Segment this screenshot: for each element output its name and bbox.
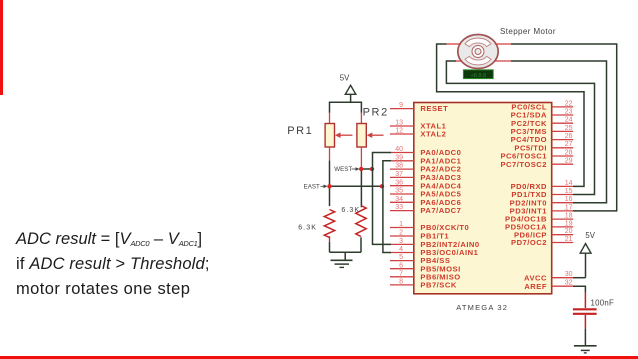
pin 40 PA0/ADC0 (left) [390,146,461,157]
motor M1: stepper motor body [458,35,498,69]
svg-text:PA7/ADC7: PA7/ADC7 [420,206,461,215]
pin 38 PA2/ADC2 (left) [390,163,461,174]
wire AREF pin32 to capacitor [573,286,585,308]
svg-text:19: 19 [565,220,573,227]
resistor PR1 (photoresistor) [325,124,352,148]
motor label [500,27,556,36]
pin 13 XTAL1 (left) [390,120,447,131]
svg-text:32: 32 [565,280,573,287]
svg-text:9: 9 [399,102,403,109]
pin 39 PA1/ADC1 (left) [390,154,462,165]
pin 23 PC1/SDA (right) [511,108,574,119]
svg-text:XTAL2: XTAL2 [420,130,446,139]
svg-text:+8.8.8: +8.8.8 [470,73,486,79]
svg-text:Stepper Motor: Stepper Motor [500,27,556,36]
svg-text:26: 26 [565,133,573,140]
svg-text:PD7/OC2: PD7/OC2 [511,238,547,247]
svg-text:PR1: PR1 [287,125,313,137]
wire motor coil B- to PD2 pin16 [511,61,607,203]
capacitor C1 100nF [573,309,597,328]
svg-text:PB7/SCK: PB7/SCK [420,281,456,290]
motor lead stubs (red) [447,44,512,61]
resistor R1 6.3K (east) [324,210,334,253]
svg-text:16: 16 [565,196,573,203]
svg-text:6: 6 [399,262,403,269]
pin 34 PA6/ADC6 (left) [390,196,461,207]
motor speed display LCD [463,70,493,79]
pin 19 PD5/OC1A (right) [505,220,573,231]
svg-text:6.3K: 6.3K [298,225,317,232]
svg-text:8: 8 [399,279,403,286]
pin 24 PC2/TCK (right) [511,117,573,128]
svg-text:PC7/TOSC2: PC7/TOSC2 [500,160,547,169]
label PR1 [287,125,313,137]
pin 6 PB5/MOSI (left) [390,262,461,273]
svg-text:7: 7 [399,270,403,277]
pin 29 PC7/TOSC2 (right) [500,158,573,169]
pin 32 AREF (right) [524,280,573,291]
label C1 100nF [591,299,615,308]
resistor PR2 (photoresistor) [357,124,384,148]
svg-text:29: 29 [565,158,573,165]
svg-text:21: 21 [565,236,573,243]
svg-text:2: 2 [399,230,403,237]
node WEST [334,166,374,173]
wire ground rail [330,252,362,260]
wire motor coil B+ to PD3 pin17 [511,44,617,211]
label R2 6.3K [341,207,360,214]
node EAST [304,184,385,191]
svg-text:33: 33 [395,204,403,211]
pin 20 PD6/ICP (right) [514,228,573,239]
pin 4 PB3/OC0/AIN1 (left) [390,246,479,257]
wire top rail [330,102,362,113]
svg-text:36: 36 [395,179,403,186]
IC name label ATMEGA 32 [456,303,508,312]
pin 17 PD3/INT1 (right) [510,204,574,215]
svg-text:AREF: AREF [524,282,547,291]
pin 28 PC6/TOSC1 (right) [500,149,573,160]
wire motor coil A- to PD1 pin15 [446,61,594,195]
pin 25 PC3/TMS (right) [511,125,574,136]
pin 26 PC4/TDO (right) [511,133,574,144]
svg-text:4: 4 [399,246,403,253]
pin 15 PD1/TXD (right) [511,188,573,199]
wire PR1 bottom lead [329,147,331,206]
svg-text:37: 37 [395,171,403,178]
pin 12 XTAL2 (left) [390,128,446,139]
svg-text:34: 34 [395,196,403,203]
svg-text:14: 14 [565,180,573,187]
wire motor coil A+ to PD0 pin14 [437,44,584,186]
power 5V supply left [340,73,356,102]
pin 9 RESET (left) [390,102,448,113]
svg-text:23: 23 [565,108,573,115]
svg-text:5V: 5V [340,73,350,82]
pin 36 PA4/ADC4 (left) [390,179,462,190]
wire PR2 bottom lead [360,147,362,207]
wire PR2 top lead [360,112,362,123]
pin 5 PB4/SS (left) [390,254,450,265]
svg-text:WEST: WEST [334,166,352,173]
svg-text:17: 17 [565,204,573,211]
svg-text:12: 12 [395,128,403,135]
pin 7 PB6/MISO (left) [390,270,461,281]
pin 37 PA3/ADC3 (left) [390,171,461,182]
wire EAST net to PA1 and PB3 [383,161,391,253]
ground symbol right [574,346,597,353]
IC U1 ATMEGA 32 body [414,103,552,294]
svg-text:40: 40 [395,146,403,153]
pin 18 PD4/OC1B (right) [505,213,573,224]
pin 33 PA7/ADC7 (left) [390,204,461,215]
svg-text:15: 15 [565,188,573,195]
wire capacitor to ground [584,329,586,346]
pin 27 PC5/TDI (right) [514,141,573,152]
svg-text:1: 1 [399,221,403,228]
svg-text:5V: 5V [585,231,595,240]
pin 16 PD2/INT0 (right) [510,196,574,207]
ground symbol left [331,260,353,267]
svg-text:28: 28 [565,149,573,156]
svg-text:100nF: 100nF [591,299,615,308]
resistor R2 6.3K (west) [356,206,366,253]
svg-text:3: 3 [399,238,403,245]
svg-text:38: 38 [395,163,403,170]
pin 14 PD0/RXD (right) [511,180,574,191]
wire WEST net to PA0 and PB2 [373,153,392,245]
svg-text:13: 13 [395,120,403,127]
svg-text:24: 24 [565,117,573,124]
svg-text:18: 18 [565,213,573,220]
wire 5V to AVCC pin30 [573,277,586,279]
svg-text:39: 39 [395,154,403,161]
label PR2 [363,106,389,118]
pin 1 PB0/XCK/T0 (left) [390,221,469,232]
pin 21 PD7/OC2 (right) [511,236,573,247]
svg-text:20: 20 [565,228,573,235]
svg-text:25: 25 [565,125,573,132]
pin 2 PB1/T1 (left) [390,230,449,241]
svg-text:27: 27 [565,141,573,148]
svg-text:EAST: EAST [304,184,320,191]
svg-text:30: 30 [565,271,573,278]
wire PR1 top lead [329,112,331,123]
label R1 6.3K [298,225,317,232]
pin 3 PB2/INT2/AIN0 (left) [390,238,480,249]
svg-text:35: 35 [395,188,403,195]
svg-text:ATMEGA 32: ATMEGA 32 [456,303,508,312]
svg-text:22: 22 [565,100,573,107]
svg-text:PR2: PR2 [363,106,389,118]
svg-text:5: 5 [399,254,403,261]
pin 22 PC0/SCL (right) [511,100,573,111]
pin 8 PB7/SCK (left) [390,279,457,290]
svg-text:6.3K: 6.3K [341,207,360,214]
power 5V supply right [580,231,596,278]
pin 30 AVCC (right) [524,271,573,282]
pin 35 PA5/ADC5 (left) [390,188,462,199]
svg-text:RESET: RESET [420,104,448,113]
